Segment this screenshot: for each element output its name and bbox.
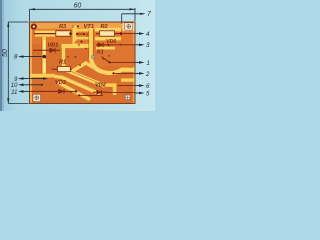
wire 8 pad trace: [43, 55, 47, 59]
board right edge light strip: [133, 23, 135, 103]
scattered drill dots: [51, 44, 122, 93]
board top lighter strip: [30, 23, 135, 29]
arrow pin 4: [139, 32, 145, 35]
pad at R3 right: [69, 32, 72, 35]
board bottom edge light strip: [30, 102, 135, 103]
arrow into board on 9: [43, 77, 48, 79]
dim 60 line: [30, 8, 136, 10]
resistor R2 lead: [96, 33, 121, 35]
dim 60 arrow left: [30, 8, 36, 10]
board outline re-stroke: [30, 22, 136, 104]
yellow halo around R3 lead row: [35, 31, 56, 37]
dim 50 extension top: [8, 21, 28, 23]
arrow pin 6: [139, 84, 145, 87]
wire pin1 inner diagonal: [102, 57, 135, 63]
VT1 base lead and pads: [77, 33, 85, 35]
arrow pin 11: [18, 90, 24, 93]
wire pin2 inner: [114, 72, 135, 74]
page left dark edge: [0, 0, 2, 111]
mounting hole bottom-left (square pad with crossed hole): [33, 94, 41, 101]
arrow pin 8: [18, 55, 24, 58]
svg-text:3: 3: [146, 42, 150, 49]
svg-text:2: 2: [145, 71, 150, 78]
dim 50 arrow bottom: [7, 98, 9, 104]
resistor R3 lead: [34, 33, 71, 35]
svg-text:5: 5: [146, 91, 150, 98]
mounting hole top-right (square pad with crossed hole): [125, 23, 133, 30]
vertical x63.5: [61, 46, 65, 68]
wire lower-center horizontal: [79, 94, 103, 96]
wire pin 1: [135, 61, 141, 63]
wire pin 10: [21, 84, 43, 86]
via crossed top-center: [91, 55, 94, 58]
dim 60 extension left: [29, 9, 31, 21]
wire pin 4: [135, 33, 141, 35]
arrow pin 10: [18, 84, 24, 87]
yellow band around R2 row: [95, 28, 121, 50]
background paper: [0, 0, 155, 111]
wire pin3 inner: [109, 44, 135, 46]
yellow L near VD2: [103, 78, 135, 95]
yellow channel: vertical above VT1-collector column: [73, 26, 77, 46]
wire pin 3: [135, 44, 141, 46]
arrow pin 2: [139, 72, 145, 75]
faint red outlines on main channels: [42, 30, 105, 102]
yellow channel: center U network: [62, 28, 92, 68]
arrow pin 1: [139, 61, 145, 64]
yellow channel: left vertical beside VD1: [42, 37, 46, 75]
pale corner near top-right hole: [123, 23, 135, 32]
arrow pin 5: [139, 92, 145, 95]
dim 50 line: [7, 22, 9, 103]
diode VD1: [33, 48, 60, 53]
dim 7 vertical: [121, 14, 123, 24]
svg-text:10: 10: [11, 82, 18, 89]
arrow pin 9: [18, 77, 24, 80]
svg-text:6: 6: [146, 83, 150, 90]
resistor R1 lead: [52, 68, 73, 70]
wire pin 11: [21, 90, 31, 92]
svg-text:1: 1: [147, 60, 150, 67]
resistor R2 body: [100, 31, 115, 36]
wire pin 5: [135, 92, 141, 94]
svg-text:8: 8: [14, 53, 18, 60]
diode VD6: [96, 43, 109, 48]
dim 60 arrow right: [130, 8, 136, 10]
wire pin4 inner: [121, 33, 135, 35]
vertical x91 tall: [89, 28, 93, 59]
board substrate: [30, 22, 136, 104]
dim 50 extension bottom: [8, 102, 28, 104]
dim 7 line: [122, 13, 144, 15]
wire pin 8: [21, 56, 44, 58]
diagonal fan bottom-center: [54, 63, 105, 100]
board left edge light strip: [30, 23, 32, 103]
dim 7 arrow: [140, 13, 146, 15]
pad at R2 right: [120, 32, 123, 35]
dim 50 arrow top: [7, 22, 9, 28]
horizontal connector y46: [62, 44, 90, 48]
diode VD3 on pin-11 line: [30, 89, 76, 94]
wire pin6 inner: [118, 85, 135, 87]
darker copper pour center-bottom: [32, 44, 133, 103]
svg-text:50: 50: [2, 49, 9, 57]
wire pin 6: [135, 85, 141, 87]
wire pin5 inner: [108, 92, 135, 94]
dim 60 extension right: [134, 8, 136, 21]
svg-text:60: 60: [74, 3, 82, 10]
yellow band horizontal left above pins 9-11: [30, 74, 56, 78]
wire pin 2: [135, 72, 141, 74]
diode VD2: [93, 90, 108, 94]
yellow channels: horizontal pair around VT1 row: [77, 29, 90, 39]
arrow pin 3: [139, 44, 145, 47]
mounting hole top-left: [31, 24, 37, 30]
svg-text:11: 11: [11, 89, 17, 96]
wire pin 9: [21, 78, 45, 80]
mounting hole bottom-right (crossed circle): [125, 95, 130, 100]
yellow wavy band right-middle to edge: [91, 58, 135, 73]
resistor R3 body: [56, 31, 71, 36]
svg-text:4: 4: [146, 31, 150, 38]
resistor R1 body: [58, 67, 71, 72]
scan mottling overlay: [0, 0, 155, 111]
